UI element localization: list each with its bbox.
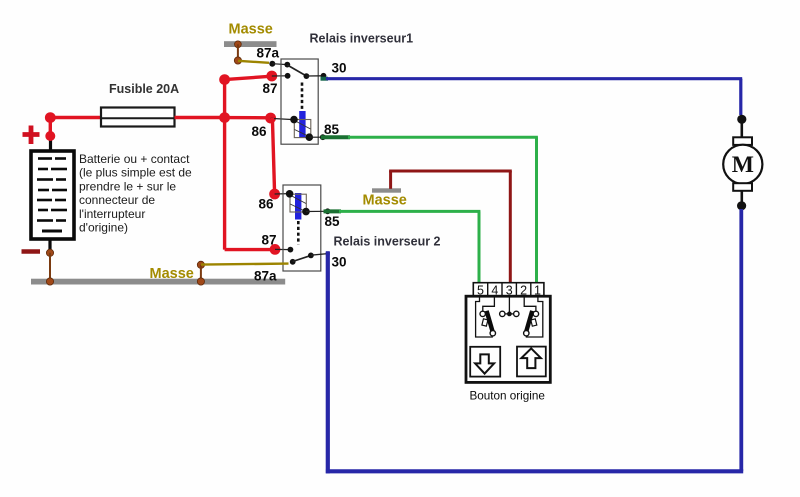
svg-text:Masse: Masse — [229, 22, 273, 38]
svg-text:86: 86 — [259, 197, 275, 212]
svg-text:Batterie ou + contact: Batterie ou + contact — [79, 152, 190, 166]
relay2 coil — [286, 190, 310, 220]
ground masse mid (relay coils) — [363, 188, 407, 208]
svg-text:87a: 87a — [254, 269, 277, 284]
button up-arrow key — [517, 347, 546, 377]
node battery plus (red junction dots) — [45, 112, 56, 141]
svg-text:30: 30 — [332, 61, 347, 76]
node relay2 86 terminal — [269, 189, 289, 200]
svg-text:86: 86 — [252, 124, 268, 139]
relay1 switch contacts — [284, 62, 326, 79]
button left contact — [480, 311, 495, 336]
button connector pins 5 4 3 2 1 — [473, 283, 544, 298]
label Batterie text — [79, 152, 192, 235]
wire motor to relay2 30 (blue bottom) — [326, 209, 743, 473]
motor M1 — [723, 115, 762, 211]
ground masse bottom — [31, 249, 285, 285]
svg-text:Bouton origine: Bouton origine — [470, 389, 545, 402]
svg-text:M: M — [732, 152, 754, 178]
wire node A to relay1 86 — [225, 116, 271, 120]
node relay1 87a terminal — [269, 61, 287, 67]
relay2 85 wire stub — [306, 208, 331, 214]
relay1 coil — [290, 111, 313, 141]
button right contact — [524, 311, 539, 336]
node A main red junction — [219, 112, 230, 123]
node relay1 87 terminal — [266, 71, 287, 82]
button pin4 internal wire — [483, 296, 495, 311]
battery B1 — [31, 136, 74, 252]
button pin3 internal wire — [508, 296, 510, 312]
wire node A down to relay2 87 — [225, 118, 275, 250]
svg-text:prendre le + sur le: prendre le + sur le — [79, 179, 176, 193]
battery plus sign — [23, 126, 40, 145]
relay U1 box — [281, 59, 318, 144]
button pin5 internal wire — [476, 296, 493, 337]
wire relay1 85 to button pin1 (green) — [321, 137, 538, 283]
wire relay1 30 to motor (blue top) — [321, 79, 743, 115]
svg-text:Relais inverseur 2: Relais inverseur 2 — [334, 235, 441, 249]
svg-text:87: 87 — [263, 81, 278, 96]
node relay1 86 terminal — [265, 113, 294, 124]
relay U2 box — [283, 185, 321, 271]
svg-text:Fusible 20A: Fusible 20A — [109, 82, 179, 96]
wire fuse to node A — [175, 116, 226, 119]
svg-text:connecteur de: connecteur de — [79, 193, 155, 207]
relay1 85 wire stub — [309, 134, 325, 140]
button common contact row — [499, 311, 519, 316]
fuse F1 — [101, 108, 175, 127]
svg-text:d'origine): d'origine) — [79, 221, 128, 235]
svg-text:30: 30 — [332, 255, 347, 270]
relay2 switch contacts — [288, 247, 328, 265]
svg-text:85: 85 — [325, 214, 341, 229]
button U3 box — [466, 296, 550, 382]
svg-text:l'interrupteur: l'interrupteur — [79, 207, 145, 221]
wire node A up to relay1 87 — [219, 74, 272, 117]
node relay2 87 terminal — [270, 244, 291, 255]
battery minus sign — [22, 249, 41, 254]
svg-text:85: 85 — [324, 122, 340, 137]
wire relay1 86 down to relay2 86 — [272, 118, 274, 194]
svg-text:(le plus simple est de: (le plus simple est de — [79, 166, 192, 180]
wire masse mid to button pin3 (dark red) — [389, 171, 512, 284]
wire relay2 85 to button pin5 (green) — [324, 211, 481, 283]
svg-text:87: 87 — [262, 233, 277, 248]
relay1 armature dashed link — [301, 83, 304, 111]
ground masse top — [224, 22, 277, 65]
svg-text:Masse: Masse — [363, 193, 407, 209]
wire masse bottom to relay2 87a — [201, 264, 289, 265]
wire relay2 30 blue start cap — [326, 251, 330, 255]
svg-text:Relais inverseur1: Relais inverseur1 — [310, 32, 414, 46]
svg-text:87a: 87a — [257, 46, 280, 61]
wire battery+ to fuse — [50, 116, 102, 119]
relay2 armature dashed link — [297, 221, 300, 245]
button pin2 internal wire — [524, 296, 536, 311]
wire masse to relay1 87a — [238, 61, 269, 63]
button down-arrow key — [470, 347, 500, 377]
button pin1 internal wire — [526, 296, 542, 337]
svg-text:Masse: Masse — [150, 266, 194, 282]
